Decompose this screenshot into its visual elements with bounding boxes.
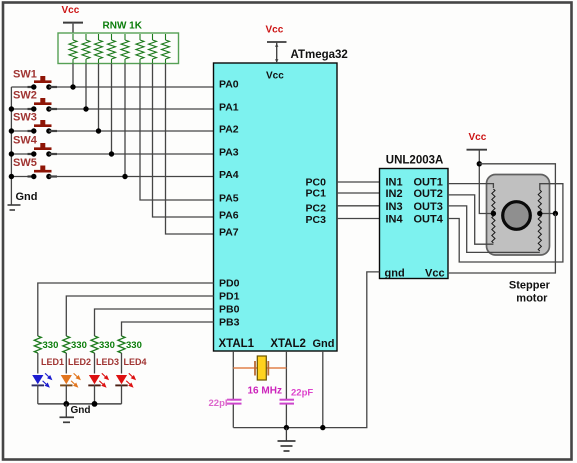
LED D4 (red) xyxy=(115,373,136,387)
svg-text:PD1: PD1 xyxy=(219,291,240,303)
node SW4/R4 junction xyxy=(109,151,114,156)
wire LED3 cathode down xyxy=(94,385,96,404)
wire pullup line 4 to SW4 node xyxy=(111,64,113,155)
wire LED column 3 xyxy=(94,353,96,374)
wire SW2 to PA1 xyxy=(49,108,214,110)
svg-text:OUT2: OUT2 xyxy=(414,188,443,200)
svg-text:PA4: PA4 xyxy=(219,169,239,181)
svg-text:LED1: LED1 xyxy=(41,357,64,367)
wire XTAL2 down xyxy=(285,351,287,399)
wire PD0 to LED1 branch xyxy=(38,283,214,336)
label Stepper motor xyxy=(509,280,551,305)
wire SW1 to PA0 xyxy=(49,86,214,88)
wire pullup line 6 to PA5 xyxy=(140,64,214,201)
svg-text:22pF: 22pF xyxy=(291,388,313,399)
ground xyxy=(8,205,21,210)
node rail-SW3 xyxy=(9,128,14,133)
svg-text:22pF: 22pF xyxy=(209,398,231,409)
svg-text:330: 330 xyxy=(99,340,115,351)
svg-text:Vcc: Vcc xyxy=(266,25,284,36)
node SW2/R2 junction xyxy=(83,106,88,111)
resistor 330 (LED1) xyxy=(34,336,58,353)
motor rotor xyxy=(503,202,531,230)
svg-text:PB0: PB0 xyxy=(219,304,240,316)
svg-text:LED3: LED3 xyxy=(96,357,119,367)
resistor RNW element 4 xyxy=(108,34,116,63)
wire PC2 to IN3 xyxy=(337,205,380,207)
node SW5/R5 junction xyxy=(122,174,127,179)
svg-text:PA5: PA5 xyxy=(219,193,239,205)
resistor network RNW 1K xyxy=(58,21,179,64)
wire OUT3 to coil B bottom xyxy=(448,206,540,253)
wire PB0 to LED3 branch xyxy=(95,309,214,336)
resistor RNW element 2 xyxy=(82,34,90,63)
coil winding A (left) xyxy=(492,189,495,243)
ground rail (switch commons) xyxy=(10,87,12,205)
svg-text:UNL2003A: UNL2003A xyxy=(386,155,444,167)
resistor RNW element 8 xyxy=(162,34,170,63)
wire LED column 2 xyxy=(65,353,67,374)
svg-text:PA1: PA1 xyxy=(219,102,239,114)
svg-text:SW2: SW2 xyxy=(13,90,37,102)
wire PC3 to IN4 xyxy=(337,218,380,220)
power Vcc (resistor network) xyxy=(62,5,84,34)
svg-text:LED2: LED2 xyxy=(68,357,91,367)
wire Vcc down to coil A centre tap xyxy=(479,150,493,214)
wire PC0 to IN1 xyxy=(337,181,380,183)
wire pullup line 7 to PA6 xyxy=(153,64,214,218)
wire PD1 to LED2 branch xyxy=(66,296,213,336)
wire OUT2 to coil A bottom xyxy=(448,195,493,244)
wire OUT1 to coil A top xyxy=(448,184,493,188)
wire pullup line 8 to PA7 xyxy=(166,64,214,235)
svg-text:Vcc: Vcc xyxy=(62,5,80,16)
svg-text:PA3: PA3 xyxy=(219,147,239,159)
wire driver Vcc pin to Vcc rail xyxy=(448,214,555,274)
wire pullup line 1 to SW1 node xyxy=(72,64,74,88)
wire pullup line 3 to SW3 node xyxy=(98,64,100,132)
ground (oscillator) xyxy=(278,428,296,451)
capacitor C2 22pF xyxy=(280,388,314,404)
node SW1/R1 junction xyxy=(70,84,75,89)
svg-text:PC1: PC1 xyxy=(306,188,327,200)
svg-text:OUT3: OUT3 xyxy=(414,201,443,213)
ground (LEDs) xyxy=(60,404,75,422)
svg-text:OUT1: OUT1 xyxy=(414,177,443,189)
node LED3-rail xyxy=(92,401,98,407)
svg-text:330: 330 xyxy=(71,340,87,351)
motor body M1 xyxy=(487,175,550,256)
svg-text:PA0: PA0 xyxy=(219,79,239,91)
wire SW3 to PA2 xyxy=(49,130,214,132)
resistor RNW element 3 xyxy=(95,34,103,63)
resistor 330 (LED2) xyxy=(63,336,87,353)
svg-text:16 MHz: 16 MHz xyxy=(248,386,282,397)
driver U2 UNL2003A xyxy=(380,155,449,279)
crystal Y1 16 MHz xyxy=(248,356,282,397)
svg-text:PD0: PD0 xyxy=(219,278,240,290)
wire LED1 cathode down xyxy=(37,385,39,404)
wire LED2 cathode down xyxy=(65,385,67,404)
wire SW5 to PA4 xyxy=(49,176,214,178)
wire PB3 to LED4 branch xyxy=(122,322,214,336)
svg-text:Stepper: Stepper xyxy=(509,280,551,292)
svg-text:330: 330 xyxy=(126,340,142,351)
svg-text:PA6: PA6 xyxy=(219,210,239,222)
wire OUT4 to coil B top xyxy=(448,184,563,262)
node rail-SW4 xyxy=(9,151,14,156)
resistor RNW element 5 xyxy=(121,34,129,63)
node Vcc branch xyxy=(477,161,482,166)
node rail-SW2 xyxy=(9,106,14,111)
node coil B rail xyxy=(553,211,558,216)
node SW3/R3 junction xyxy=(96,128,101,133)
svg-text:Gnd: Gnd xyxy=(16,191,38,203)
svg-text:SW1: SW1 xyxy=(13,69,37,81)
node chip-gnd junction xyxy=(320,425,325,430)
svg-text:Vcc: Vcc xyxy=(425,268,445,280)
svg-text:XTAL1: XTAL1 xyxy=(219,338,255,350)
svg-text:ATmega32: ATmega32 xyxy=(291,49,348,61)
wire pullup line 5 to SW5 node xyxy=(124,64,126,177)
wire crystal link xyxy=(233,367,286,369)
resistor 330 (LED3) xyxy=(91,336,115,353)
switch SW4 xyxy=(11,135,57,157)
svg-text:SW3: SW3 xyxy=(13,112,37,124)
switch SW3 xyxy=(11,112,57,134)
wire XTAL1 down xyxy=(232,351,234,399)
wire Vcc branch to coil B centre tap xyxy=(479,164,555,214)
wire driver gnd pin to ground rail xyxy=(233,272,379,428)
wire chip Gnd down xyxy=(322,351,324,428)
node rail-SW5 xyxy=(9,174,14,179)
op: microcontroller U1 ATmega32 xyxy=(214,49,348,351)
switch SW5 xyxy=(11,157,57,179)
capacitor C1 22pF xyxy=(209,398,242,409)
svg-text:PC2: PC2 xyxy=(306,203,327,215)
svg-text:IN2: IN2 xyxy=(386,188,403,200)
svg-text:PB3: PB3 xyxy=(219,317,240,329)
switch SW2 xyxy=(11,90,57,112)
svg-text:Vcc: Vcc xyxy=(469,132,487,143)
svg-text:IN4: IN4 xyxy=(386,214,404,226)
svg-text:IN3: IN3 xyxy=(386,201,403,213)
node coil A centre tap xyxy=(491,211,496,216)
power Vcc (ATmega32) xyxy=(266,25,287,64)
node coil B centre tap xyxy=(537,211,542,216)
resistor RNW element 1 xyxy=(69,34,77,63)
power Vcc (motor) xyxy=(467,132,488,150)
svg-text:Gnd: Gnd xyxy=(313,338,335,350)
resistor RNW element 7 xyxy=(149,34,157,63)
svg-text:Gnd: Gnd xyxy=(71,405,91,416)
svg-text:LED4: LED4 xyxy=(124,357,147,367)
svg-text:RNW 1K: RNW 1K xyxy=(103,21,143,32)
svg-text:Vcc: Vcc xyxy=(266,71,284,82)
wire LED ground rail xyxy=(38,403,122,405)
svg-text:gnd: gnd xyxy=(385,268,405,280)
wire LED column 4 xyxy=(121,353,123,374)
wire pullup line 2 to SW2 node xyxy=(85,64,87,110)
svg-text:PA7: PA7 xyxy=(219,227,239,239)
wire LED column 1 xyxy=(37,353,39,374)
node LED2-rail xyxy=(63,401,69,407)
svg-text:SW4: SW4 xyxy=(13,135,38,147)
svg-text:OUT4: OUT4 xyxy=(414,214,444,226)
LED D1 (blue) xyxy=(32,373,53,387)
svg-text:XTAL2: XTAL2 xyxy=(270,338,306,350)
svg-text:PC3: PC3 xyxy=(306,214,327,226)
wire PC1 to IN2 xyxy=(337,192,380,194)
svg-text:330: 330 xyxy=(43,340,59,351)
svg-text:motor: motor xyxy=(516,293,548,305)
LED D3 (red) xyxy=(88,373,109,387)
LED D2 (orange) xyxy=(60,373,81,387)
svg-text:PA2: PA2 xyxy=(219,124,239,136)
node XTAL2/gnd junction xyxy=(284,425,289,430)
resistor 330 (LED4) xyxy=(118,336,142,353)
resistor RNW element 6 xyxy=(136,34,144,63)
wire LED4 cathode down xyxy=(121,385,123,404)
svg-text:IN1: IN1 xyxy=(386,177,403,189)
switch SW1 xyxy=(11,69,57,90)
coil winding B (right) xyxy=(538,190,541,251)
wire SW4 to PA3 xyxy=(49,153,214,155)
svg-text:SW5: SW5 xyxy=(13,157,37,169)
